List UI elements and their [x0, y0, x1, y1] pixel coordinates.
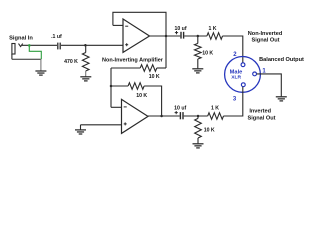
wire jack sleeve to ground — [12, 58, 41, 60]
resistor R3 1 K (top) — [207, 33, 223, 40]
wire C1 to op-amp U1 + input — [61, 44, 123, 46]
ground below bottom 10K — [197, 138, 199, 143]
XLR pin 2 — [241, 63, 245, 67]
svg-text:Balanced Output: Balanced Output — [259, 57, 304, 63]
resistor R1 470 K — [85, 45, 87, 52]
svg-text:1 K: 1 K — [208, 26, 216, 32]
ground at jack — [40, 59, 42, 70]
ground below top 10K — [197, 59, 199, 68]
node green junction on signal rail — [28, 44, 31, 47]
resistor R4 10 K (input to inverting amp) — [140, 65, 157, 72]
wire C2 to R 1K — [184, 35, 207, 37]
node junction at 470K — [84, 44, 87, 47]
svg-text:Non-Inverted: Non-Inverted — [248, 31, 283, 37]
svg-text:1 K: 1 K — [211, 106, 219, 112]
capacitor C2 10 uf — [180, 32, 182, 39]
XLR pin 1 — [253, 72, 257, 76]
U1 plus pin mark — [125, 44, 128, 46]
node rail2 junction — [110, 85, 113, 88]
wire XLR pin 1 to ground — [257, 74, 282, 97]
svg-text:Signal In: Signal In — [9, 35, 33, 41]
wire green jumper to sleeve line — [29, 45, 41, 59]
svg-text:10 uf: 10 uf — [174, 106, 186, 112]
resistor R7 1 K (bottom) — [208, 113, 224, 120]
ground at pin 1 — [276, 96, 287, 98]
wire U2 minus stub — [111, 106, 122, 108]
wire U2 output rail — [148, 115, 180, 117]
U2 plus pin mark — [124, 123, 127, 125]
svg-text:.1 uf: .1 uf — [51, 34, 62, 40]
svg-text:Signal Out: Signal Out — [252, 37, 280, 43]
wire U2 plus input to ground — [81, 124, 122, 126]
svg-text:XLR: XLR — [231, 75, 241, 81]
capacitor C3 10 uf — [179, 112, 181, 119]
U2 minus pin mark — [124, 106, 127, 108]
node junction at bottom 10K — [197, 115, 200, 118]
wire U1 feedback loop — [113, 24, 123, 26]
ground at U2 plus input — [75, 129, 86, 131]
svg-text:10 K: 10 K — [136, 93, 147, 99]
resistor R2 10 K pulldown (top) — [197, 36, 199, 43]
svg-text:10 K: 10 K — [204, 128, 215, 134]
resistor R6 10 K pulldown (bottom) — [197, 116, 199, 118]
wire feedback to lower output — [144, 86, 162, 116]
jack J1 (1/4 inch phone jack) — [12, 44, 23, 60]
svg-text:10 K: 10 K — [149, 74, 160, 80]
capacitor C3 10 uf plus mark — [175, 112, 178, 114]
svg-text:Male: Male — [230, 69, 243, 75]
XLR pin 3 — [241, 83, 245, 87]
wire 1K to XLR pin 2 — [223, 36, 243, 63]
resistor R5 10 K (feedback) — [111, 85, 128, 87]
capacitor C2 10 uf plus mark — [175, 32, 178, 34]
node feedback tap on lower output — [160, 115, 163, 118]
wire signal rail (jack tip to C1) — [22, 44, 57, 46]
wire bottom 1K to XLR pin 3 — [224, 87, 243, 116]
svg-text:10 K: 10 K — [202, 51, 213, 57]
wire U1 output rail — [150, 35, 181, 37]
svg-text:470 K: 470 K — [64, 59, 78, 65]
U1 minus pin mark — [125, 25, 128, 27]
connector XLR male — [225, 57, 261, 93]
wire C3 to bottom 1K — [184, 115, 208, 117]
svg-text:Signal Out: Signal Out — [248, 115, 276, 121]
capacitor C1 .1 uf — [57, 43, 59, 50]
ground below 470K — [85, 71, 87, 77]
op-amp U2 (inverting amplifier) — [122, 99, 149, 133]
svg-text:Non-Inverting Amplifier: Non-Inverting Amplifier — [102, 58, 164, 64]
wire lower rail1 with input resistor — [111, 67, 140, 69]
svg-text:3: 3 — [233, 97, 237, 103]
node output/feedback junction — [165, 35, 168, 38]
svg-text:Inverted: Inverted — [249, 109, 271, 115]
node junction at top 10K — [197, 35, 200, 38]
wire left vertical inverting node — [110, 68, 112, 107]
op-amp U1 (non-inverting amplifier) — [123, 19, 150, 52]
